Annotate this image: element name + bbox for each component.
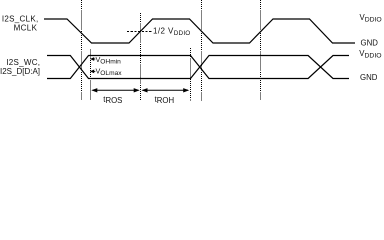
svg-text:I2S_CLK,: I2S_CLK,: [2, 14, 39, 23]
svg-text:GND: GND: [360, 73, 378, 82]
svg-text:tROH: tROH: [155, 95, 175, 105]
svg-text:I2S_D[D:A]: I2S_D[D:A]: [0, 67, 40, 76]
svg-text:tROS: tROS: [103, 95, 122, 105]
svg-text:I2S_WC,: I2S_WC,: [6, 58, 40, 67]
svg-text:GND: GND: [361, 38, 379, 47]
svg-text:MCLK: MCLK: [14, 24, 38, 33]
